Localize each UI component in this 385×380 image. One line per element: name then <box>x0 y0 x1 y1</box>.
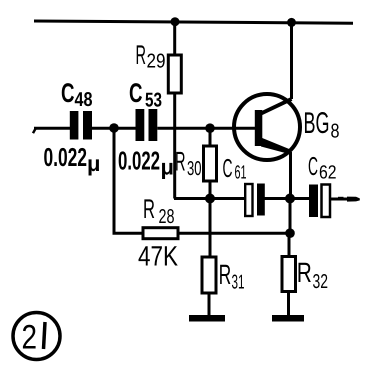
label R29 <box>137 45 165 67</box>
label R28 <box>144 199 174 223</box>
label C48 value 0.022u <box>44 148 99 176</box>
wire emitter node down to node B <box>289 199 292 234</box>
capacitor C53 <box>136 109 158 141</box>
ground under R32 <box>272 315 304 322</box>
wire node A down to R28 <box>114 128 143 234</box>
wire emitter node line <box>174 197 245 200</box>
resistor R30 <box>204 131 217 199</box>
label C61 <box>223 159 246 179</box>
wire output with arrow <box>330 197 360 202</box>
label BG8 <box>305 112 339 138</box>
resistor R31 <box>202 257 216 315</box>
label C53 <box>130 83 162 107</box>
node B (R28/R32/emitter) <box>285 228 295 238</box>
label R31 <box>220 265 244 289</box>
capacitor C48 <box>70 111 92 140</box>
label R32 <box>299 263 328 288</box>
resistor R29 <box>168 22 181 129</box>
wire C48 to C53 <box>92 127 137 130</box>
wire collector to rail <box>290 22 293 99</box>
node rail/R29 junction <box>171 17 180 26</box>
wire top supply rail <box>34 21 353 23</box>
wire emitter junction down to R31 <box>209 199 212 258</box>
capacitor C62 <box>309 185 330 218</box>
label C62 <box>309 157 336 179</box>
label C53 value 0.022u <box>119 151 173 179</box>
node base/R30 junction <box>205 123 215 133</box>
node A (C48/C53/R28 junction) <box>109 123 119 133</box>
wire C61 to C62 <box>264 197 309 200</box>
label R28 value 47K <box>139 246 178 265</box>
capacitor C61 <box>245 184 265 217</box>
transistor BG8 <box>234 94 300 160</box>
node emitter/R30/R31 junction <box>205 194 215 204</box>
wire C53 to transistor base <box>157 127 255 130</box>
node C61/emitter junction <box>285 194 295 204</box>
figure number 21 <box>13 313 60 360</box>
ground under R31 <box>189 315 225 322</box>
resistor R32 <box>282 233 296 315</box>
label R30 <box>176 152 201 175</box>
wire R29 lower lead to emitter line <box>173 128 176 198</box>
resistor R28 <box>143 228 178 239</box>
wire input lead <box>33 128 70 133</box>
wire R28 to node B <box>178 232 290 235</box>
wire emitter down to emitter line <box>289 152 292 199</box>
label C48 <box>62 83 92 106</box>
node rail/collector junction <box>287 18 296 27</box>
